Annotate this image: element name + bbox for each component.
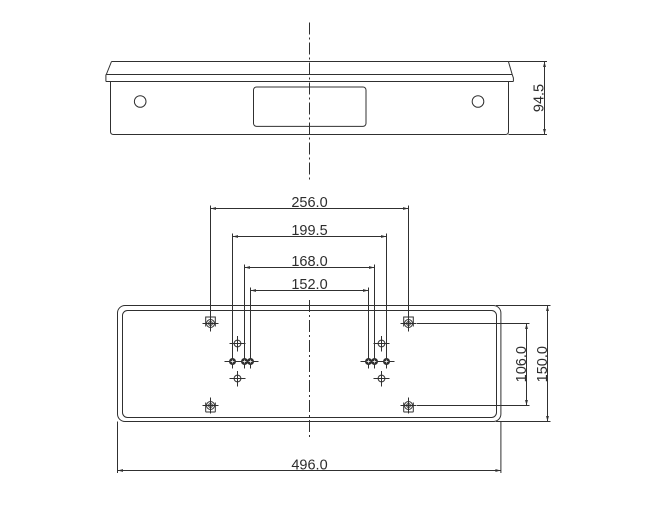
svg-text:94.5: 94.5 [532, 84, 548, 112]
bottom view vertical centerline [309, 300, 311, 438]
dimension 199.5 text [291, 223, 327, 239]
bottom view outer outline [118, 306, 501, 422]
dimension 152.0 dimension line [251, 290, 369, 292]
svg-text:150.0: 150.0 [535, 346, 551, 382]
dimension 199.5 arrows [233, 235, 387, 238]
dimension 199.5 extension lines [233, 234, 387, 369]
top view lip top edge [106, 74, 512, 76]
right cluster lower hole [374, 371, 390, 387]
dimension 199.5 dimension line [233, 236, 387, 238]
dimension 496.0 dimension line [118, 470, 501, 472]
top view lip left end [105, 75, 107, 82]
dimension 256.0 text [291, 195, 327, 211]
dimension 152.0 text [291, 277, 327, 293]
hole hatch highlights on press-fit pins [231, 360, 389, 364]
top view cap left slant edge [106, 62, 111, 75]
dimension 256.0 arrows [211, 207, 409, 210]
svg-text:256.0: 256.0 [291, 195, 327, 211]
top view lip right end [512, 75, 513, 82]
dimension 150.0 text [535, 346, 551, 382]
dimension 152.0 arrows [251, 289, 369, 292]
top view center lens rectangle [254, 87, 367, 126]
top view vertical centerline [309, 23, 311, 181]
dimension 94.5 arrow bottom [543, 129, 546, 135]
right cluster upper hole [374, 336, 390, 352]
svg-text:199.5: 199.5 [291, 223, 327, 239]
dimension 152.0 extension lines [251, 288, 369, 369]
top view cap top edge [112, 61, 509, 63]
top view cap right slant edge [508, 62, 512, 75]
mounting slot top-left [203, 316, 219, 332]
dimension 168.0 extension lines [245, 265, 375, 369]
top view left hole [134, 96, 146, 108]
dimension 168.0 text [291, 254, 327, 270]
dimension 168.0 dimension line [245, 267, 375, 269]
mounting slot bottom-left [203, 398, 219, 414]
dimension 94.5 extension line bottom [509, 134, 548, 136]
dimension 150.0 arrows [546, 306, 549, 422]
dimension 106.0 arrows [525, 324, 528, 406]
svg-text:496.0: 496.0 [291, 458, 327, 474]
top view right hole [472, 96, 484, 108]
top view lip bottom edge [106, 81, 514, 83]
dimension 94.5 arrow top [543, 62, 546, 68]
dimension 150.0 dimension line [547, 306, 549, 422]
dimension 256.0 dimension line [211, 208, 409, 210]
dimension 94.5 text [532, 84, 548, 112]
dimension 496.0 text [291, 458, 327, 474]
bottom view inner outline [123, 311, 497, 418]
dimension 106.0 extension lines [417, 324, 530, 406]
top view body outline [111, 82, 509, 135]
dimension 94.5 dimension line [544, 62, 546, 135]
left cluster upper hole [230, 336, 246, 352]
svg-text:168.0: 168.0 [291, 254, 327, 270]
left cluster middle row holes [225, 358, 259, 365]
dimension 496.0 extension lines [118, 422, 501, 474]
dimension 496.0 arrows [118, 469, 501, 472]
mounting slot top-right [401, 316, 417, 332]
svg-text:152.0: 152.0 [291, 277, 327, 293]
right cluster middle row holes [361, 358, 395, 365]
dimension 150.0 extension lines [496, 306, 551, 422]
dimension 106.0 text [514, 346, 530, 382]
dimension 256.0 extension lines [211, 206, 409, 317]
dimension 94.5 extension line top [508, 61, 547, 63]
left cluster lower hole [230, 371, 246, 387]
dimension 106.0 dimension line [526, 324, 528, 406]
svg-text:106.0: 106.0 [514, 346, 530, 382]
mounting slot bottom-right [401, 398, 417, 414]
dimension 168.0 arrows [245, 266, 375, 269]
